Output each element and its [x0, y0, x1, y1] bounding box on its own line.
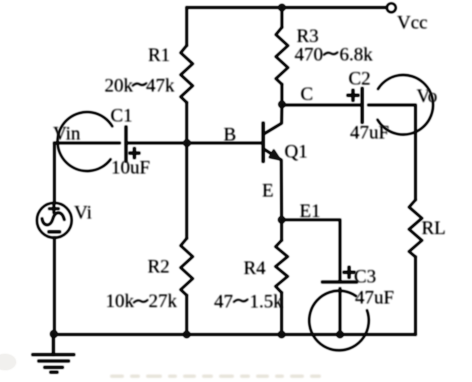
source Vi plus	[49, 205, 58, 213]
wire Vin down to source	[53, 143, 55, 203]
junction dot R2 bottom	[183, 331, 190, 338]
annotation circle around Vo	[378, 75, 434, 135]
faint caption remnant	[110, 375, 321, 378]
svg-text:1.5k: 1.5k	[250, 291, 284, 312]
wire input segment Vin to C1	[54, 142, 119, 144]
svg-text:470: 470	[295, 44, 324, 65]
source Vi circle	[37, 203, 72, 238]
svg-text:47uF: 47uF	[355, 288, 394, 309]
junction dot R4 bottom	[278, 331, 285, 338]
wire collector	[264, 105, 282, 134]
transistor Q1 emitter arrow	[269, 149, 282, 160]
capacitor C3 plate	[323, 281, 357, 284]
resistor R1	[181, 46, 193, 103]
faint smudge bottom-left	[0, 354, 16, 370]
node B junction dot	[184, 140, 191, 147]
wire E1 to C3	[282, 220, 340, 280]
svg-text:R4: R4	[244, 258, 267, 279]
polarity plus C1	[130, 149, 139, 158]
svg-text:E1: E1	[300, 201, 321, 222]
resistor R4 top lead	[281, 220, 283, 241]
polarity plus C3	[344, 267, 354, 277]
resistor R4	[276, 240, 288, 292]
junction dot ground	[50, 330, 57, 337]
resistor R2	[181, 238, 193, 295]
junction dot R3 top	[278, 4, 285, 11]
svg-text:C1: C1	[111, 106, 133, 127]
svg-text:47k: 47k	[146, 76, 175, 97]
wire C3 to ground rail	[339, 289, 341, 335]
svg-text:Vcc: Vcc	[397, 13, 428, 34]
svg-text:27k: 27k	[149, 291, 178, 312]
wire R1 branch top lead	[186, 8, 188, 46]
wire C2 to output corner	[369, 105, 416, 200]
node C junction dot	[278, 101, 285, 108]
wire R1 bottom lead	[186, 103, 188, 144]
svg-text:E: E	[262, 181, 274, 202]
svg-text:10k: 10k	[106, 291, 135, 312]
resistor R3 top lead	[281, 8, 283, 28]
svg-text:Vin: Vin	[53, 124, 81, 145]
capacitor C1	[125, 127, 128, 161]
resistor RL	[409, 200, 422, 257]
svg-text:Q1: Q1	[285, 142, 308, 163]
svg-text:C2: C2	[349, 69, 371, 90]
junction dot E1	[278, 216, 285, 223]
wire source to ground rail	[53, 238, 55, 335]
wire bottom rail	[54, 333, 416, 335]
wire top rail	[187, 6, 387, 8]
wire emitter diagonal	[264, 149, 281, 220]
svg-text:C: C	[301, 84, 314, 105]
svg-text:C3: C3	[354, 267, 376, 288]
svg-text:R1: R1	[148, 45, 170, 66]
source Vi minus	[49, 231, 60, 234]
annotation circle around C3	[309, 291, 369, 351]
svg-text:47uF: 47uF	[350, 123, 389, 144]
svg-text:R2: R2	[148, 257, 170, 278]
transistor Q1 base bar	[262, 123, 265, 161]
svg-text:RL: RL	[422, 218, 446, 239]
capacitor C2	[361, 89, 364, 123]
wire C1 to base	[126, 142, 263, 144]
svg-text:Vo: Vo	[417, 86, 438, 107]
resistor R2 top lead	[186, 143, 188, 238]
ground	[33, 334, 74, 372]
wire node C to C2	[282, 104, 360, 106]
resistor R3	[276, 27, 288, 84]
polarity plus C2	[348, 90, 358, 100]
svg-text:10uF: 10uF	[111, 158, 150, 179]
wire RL bottom lead	[414, 257, 416, 335]
wire R3 bottom lead	[281, 84, 283, 104]
junction dot C3 bottom	[337, 331, 344, 338]
wire R4 bottom lead	[281, 293, 283, 335]
annotation circle around Vin/C1	[58, 112, 113, 171]
svg-text:20k: 20k	[105, 76, 134, 97]
source Vi sine	[42, 213, 64, 225]
wire R2 bottom lead	[186, 295, 188, 334]
svg-text:6.8k: 6.8k	[340, 44, 374, 65]
svg-text:B: B	[224, 125, 237, 146]
svg-text:47: 47	[214, 291, 233, 312]
svg-text:Vi: Vi	[74, 203, 92, 224]
terminal Vcc	[387, 3, 396, 12]
